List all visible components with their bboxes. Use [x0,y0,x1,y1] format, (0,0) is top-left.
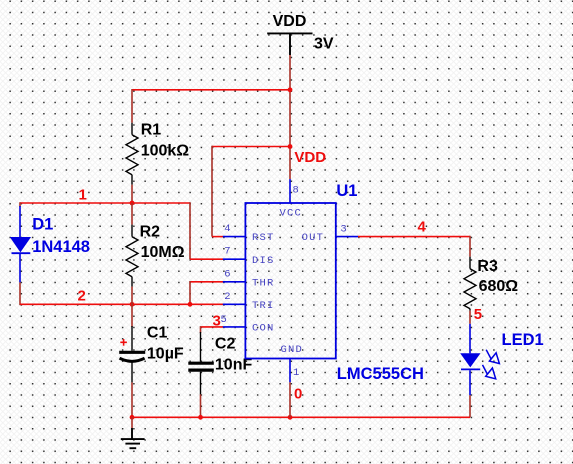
wire net 1 horizontal [20,202,190,204]
wire C1 bottom [131,382,133,417]
wire VDD vertical [289,55,291,179]
wire RST loop horizontal bottom [212,236,223,238]
wire R2 bottom [131,287,133,305]
resistor R1 [126,123,138,185]
pin stub DIS (7) [223,258,246,260]
resistor R3 [464,257,476,311]
wire net 0 horizontal [132,416,470,418]
svg-text:4: 4 [418,218,427,235]
wire DIS horizontal [190,258,223,260]
svg-text:C1: C1 [147,325,168,342]
wire R2 top [131,203,133,225]
junction net0 GND pin [288,415,293,420]
power VDD symbol [267,33,312,55]
svg-text:7: 7 [224,246,232,258]
capacitor C2 [188,332,214,394]
svg-text:R2: R2 [140,224,161,241]
pin stub TRI (2) [223,303,246,305]
C1 plus sign [120,339,127,346]
wire RST loop horizontal top [212,146,290,148]
pin stub THR (6) [223,281,246,283]
svg-text:1: 1 [293,367,301,379]
wire net 2 horizontal [20,303,223,305]
svg-text:R3: R3 [477,258,498,275]
pin stub OUT (3) [336,236,358,238]
svg-text:R1: R1 [141,121,162,138]
wire CON corner vertical [200,326,202,333]
wire D1 top corner [19,202,21,207]
junction net2 R2 [130,302,135,307]
svg-text:VDD: VDD [273,13,307,30]
junction VDD branch [288,87,293,92]
wire C2 bottom [200,394,202,417]
svg-text:VCC: VCC [280,207,303,219]
wire THR horizontal [190,281,223,283]
svg-text:3V: 3V [314,36,334,53]
junction net1 R1 [130,201,135,206]
wire R3 top vertical [469,236,471,257]
svg-text:OUT: OUT [302,232,325,244]
ground symbol [121,428,145,448]
wire D1 bottom [19,282,21,305]
svg-text:0: 0 [294,385,302,402]
svg-text:3: 3 [340,223,348,235]
wire GND pin to net0 [289,382,291,417]
svg-text:10MΩ: 10MΩ [141,244,185,261]
svg-text:LMC555CH: LMC555CH [337,365,424,383]
wire ground stem red [131,417,133,428]
junction net0 C2 [198,415,203,420]
svg-text:1N4148: 1N4148 [32,238,90,256]
svg-text:1: 1 [79,186,87,203]
junction net0 ground [130,415,135,420]
svg-text:VDD: VDD [294,149,326,166]
svg-text:2: 2 [224,291,232,303]
wire R1 bottom [131,185,133,203]
wire top branch horizontal [132,89,290,91]
capacitor C1 [119,326,145,382]
svg-text:GND: GND [281,344,304,356]
LED arrow 2 [483,365,496,379]
svg-text:6: 6 [224,268,232,280]
svg-text:8: 8 [293,185,301,197]
svg-text:TRI: TRI [252,300,275,312]
LED LED1 [461,324,480,396]
wire C1 top [131,304,133,327]
diode D1 [12,206,31,282]
pin stub GND (1) [289,359,291,383]
svg-text:5: 5 [221,314,229,326]
svg-text:100kΩ: 100kΩ [141,142,190,159]
resistor R2 [126,225,138,287]
svg-text:C2: C2 [215,336,236,353]
svg-text:2: 2 [78,288,86,305]
wire OUT horizontal [358,236,470,238]
svg-text:680Ω: 680Ω [479,278,519,295]
junction net2 THR [188,302,193,307]
wire THR vertical [189,281,191,304]
wire DIS vertical [189,202,191,259]
LED arrow 1 [486,350,499,364]
junction VDD RST loop [288,144,293,149]
pin stub VCC (8) [289,179,291,203]
pin stub RST (4) [223,236,246,238]
svg-text:4: 4 [224,223,232,235]
svg-text:5: 5 [474,306,482,323]
wire CON horizontal [201,326,224,328]
svg-text:DIS: DIS [252,255,275,267]
svg-text:U1: U1 [336,182,357,200]
svg-text:10µF: 10µF [147,345,184,362]
wire R1 top drop [131,89,133,123]
wire R3 to LED [469,311,471,324]
wire RST loop vertical [211,146,213,237]
svg-text:CON: CON [252,323,275,335]
wire LED bottom vertical [469,395,471,417]
IC U1 outline [245,203,335,359]
svg-text:THR: THR [252,277,275,289]
pin stub CON (5) [223,326,246,328]
svg-text:D1: D1 [32,216,53,234]
svg-text:RST: RST [252,232,275,244]
svg-text:LED1: LED1 [502,331,544,349]
